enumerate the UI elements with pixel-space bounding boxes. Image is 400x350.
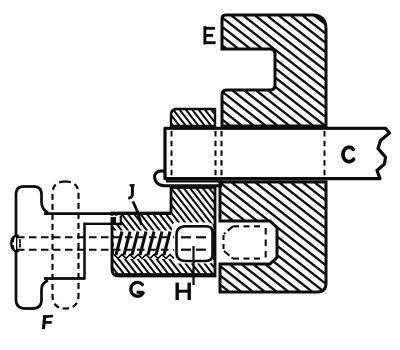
- latch arm top edge: [166, 180, 222, 182]
- shaft hole through G left wall (white): [85, 216, 121, 223]
- casing block E (top right, hatched, with rectangular slot in left face): [222, 15, 326, 126]
- spindle end (dashed ellipse on knob face): [13, 235, 20, 252]
- label H: [177, 284, 189, 298]
- spring channel (white) inside G: [114, 231, 174, 260]
- hole inner end wall: [120, 216, 122, 226]
- spindle hidden centerlines (dashed): [17, 236, 174, 238]
- bolt bar C (white, passes through blocks, break symbol at right): [165, 128, 390, 178]
- collar block on top of bar C: [171, 109, 215, 126]
- G block bottom edge emphasis: [114, 273, 214, 276]
- leader line for J: [133, 202, 142, 226]
- keeper block (lower right, hatched, with socket notch): [220, 182, 326, 292]
- ghost (rotated) wing of knob F, dashed: [53, 182, 79, 309]
- spring bottom zigzag: [114, 255, 174, 259]
- knob F plate (solid outline): [16, 187, 48, 309]
- hidden spindle dashes inside plunger H: [181, 237, 206, 249]
- latch arm with hook under bar C: [155, 171, 222, 186]
- label J: [128, 185, 134, 198]
- hub right edge step: [83, 223, 86, 280]
- hub bottom line: [44, 277, 85, 280]
- label C: [343, 147, 354, 161]
- hidden hole edges in bar C (dashed): [171, 131, 173, 176]
- leader line for H: [192, 246, 194, 285]
- retainer at G left wall: [111, 217, 117, 224]
- spindle end bump on knob face: [11, 236, 16, 252]
- hidden socket hole outline (dashed, in keeper notch): [224, 226, 266, 258]
- shaft lower line through G wall: [85, 223, 122, 225]
- bracket block G (hatched housing): [112, 188, 215, 277]
- label E: [205, 28, 214, 43]
- label G: [131, 282, 143, 296]
- plunger cavity (white) inside G: [172, 223, 213, 264]
- plunger H head: [177, 226, 213, 261]
- hub / spindle top line to block G: [44, 212, 171, 215]
- spring J coils: [116, 232, 170, 256]
- label F: [44, 316, 52, 328]
